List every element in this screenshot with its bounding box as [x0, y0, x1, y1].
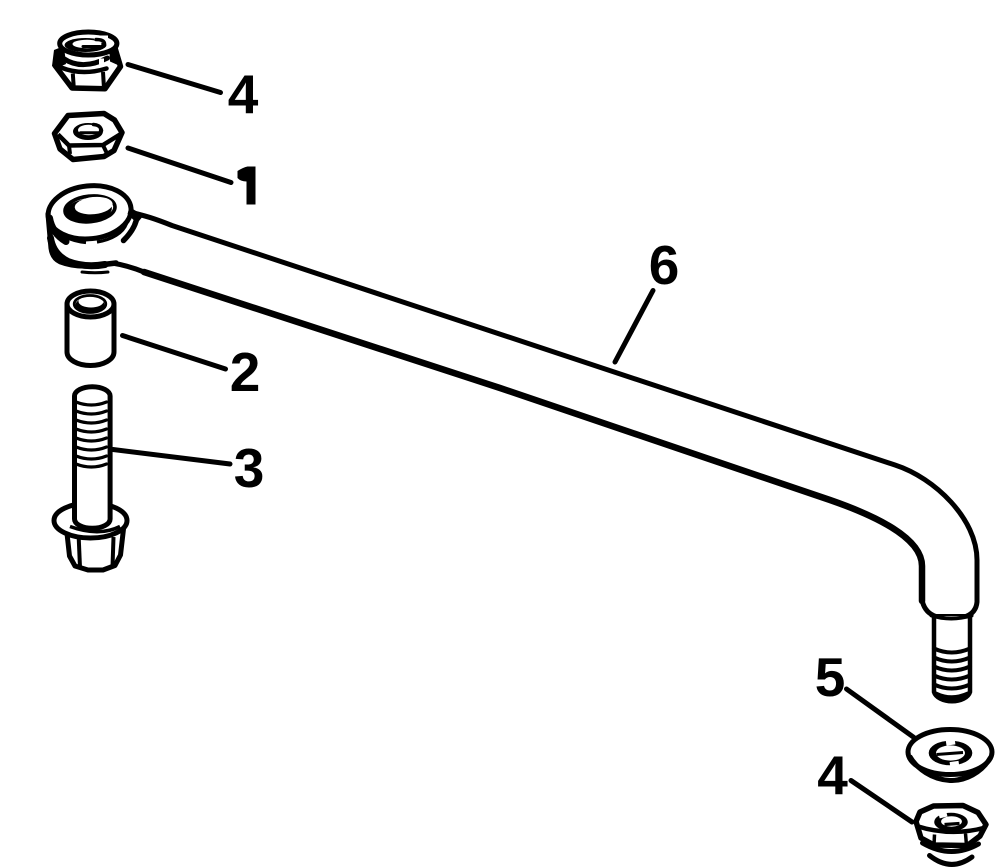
- locknut 4 (top): collar bottom arc: [64, 58, 108, 65]
- tie rod 6: stud threads: [934, 649, 970, 698]
- locknut 4 (bottom): upper flange: [923, 843, 979, 852]
- leader line to label 5: [847, 689, 915, 738]
- tie rod 6: eye top ellipse: [45, 182, 133, 243]
- bolt 3: shank with rounded cap and rounded bottom: [75, 387, 111, 529]
- locknut 4 (top): dark corner wedges: [52, 46, 66, 68]
- washer 5: inner thin arc right: [955, 763, 988, 780]
- hex nut 1: top face boundary: [58, 134, 122, 146]
- locknut 4 (top): facet lines: [71, 74, 76, 87]
- bolt 3: flange inner double line: [70, 527, 120, 532]
- locknut 4 (top): top ellipse: [60, 32, 117, 55]
- bushing 2: cylinder body: [67, 304, 114, 366]
- leader line to label 3: [113, 450, 230, 465]
- washer 5: ring notches: [946, 738, 956, 746]
- tie rod 6: main arm body: [112, 210, 977, 617]
- bolt 3: threads: [76, 402, 107, 467]
- tie rod 6: eye inner hole: [64, 194, 117, 225]
- hex nut 1: hole chord bar: [81, 131, 99, 134]
- locknut 4 (top): hole hook arc: [96, 40, 105, 44]
- leader line to label 6: [615, 291, 653, 363]
- hex nut 1: octagon silhouette: [55, 114, 123, 160]
- tie rod 6: heavier underside edge: [144, 272, 922, 601]
- locknut 4 (top): hex top boundary arc: [61, 68, 107, 73]
- tie rod 6: eye chamfer arcs: [54, 226, 87, 243]
- svg-text:4: 4: [817, 744, 848, 806]
- tie rod 6: stud shoulder line: [932, 616, 972, 619]
- bolt 3: hex facet lines: [79, 533, 81, 568]
- bushing 2: top ellipse: [67, 291, 114, 317]
- bolt 3: flange ellipse: [54, 503, 127, 538]
- washer 5: lower thickness arc: [910, 756, 991, 781]
- bolt 3: hex head: [67, 529, 124, 570]
- tie rod 6: threaded stud tip: [934, 616, 970, 701]
- locknut 4 (bottom): hole: [934, 813, 968, 831]
- leader line to label 4 (bottom): [851, 781, 912, 823]
- tie rod 6: eye boss cap arc: [124, 217, 138, 241]
- tie rod 6: eye shadow line below: [82, 271, 108, 275]
- locknut 4 (bottom): hex silhouette: [916, 806, 986, 846]
- locknut 4 (top): hole chord bar: [83, 45, 100, 48]
- tie rod 6: eye boss heavy lower-left shade: [51, 238, 106, 266]
- svg-text:6: 6: [649, 234, 680, 296]
- svg-text:2: 2: [230, 341, 261, 403]
- washer 5: top face ellipse: [908, 730, 992, 775]
- tie rod 6: eye rim lower-left heavy arc: [50, 218, 67, 242]
- leader line to label 4 (top): [128, 65, 221, 93]
- locknut 4 (bottom): top face boundary: [917, 826, 986, 832]
- svg-text:4: 4: [228, 63, 259, 125]
- bushing 2: inner hole crescent: [76, 297, 105, 313]
- locknut 4 (bottom): lower flange ring: [930, 856, 973, 865]
- locknut 4 (top): hole C-ring: [65, 38, 107, 52]
- leader line to label 1: [128, 148, 231, 183]
- hex nut 1: hole hook arc: [94, 125, 102, 131]
- locknut 4 (bottom): facet lines: [932, 835, 936, 846]
- washer 5: center chord line: [937, 753, 964, 755]
- hex nut 1: hole C-ring: [73, 123, 103, 140]
- washer 5: hole ring: [929, 741, 973, 766]
- hex nut 1: facet lines: [69, 146, 70, 155]
- tie rod 6: eye-arm junction wedge: [128, 207, 144, 224]
- tie rod 6: eye boss body: [48, 210, 130, 266]
- tie rod 6: eye boss outline (left wall and bottom arc): [48, 214, 116, 266]
- label 1: [238, 167, 256, 205]
- leader line to label 2: [123, 336, 226, 370]
- svg-text:3: 3: [234, 437, 265, 499]
- tie rod 6: eye hole dark crescent: [64, 196, 113, 224]
- svg-text:5: 5: [815, 646, 846, 708]
- locknut 4 (top): hex body silhouette: [55, 48, 121, 89]
